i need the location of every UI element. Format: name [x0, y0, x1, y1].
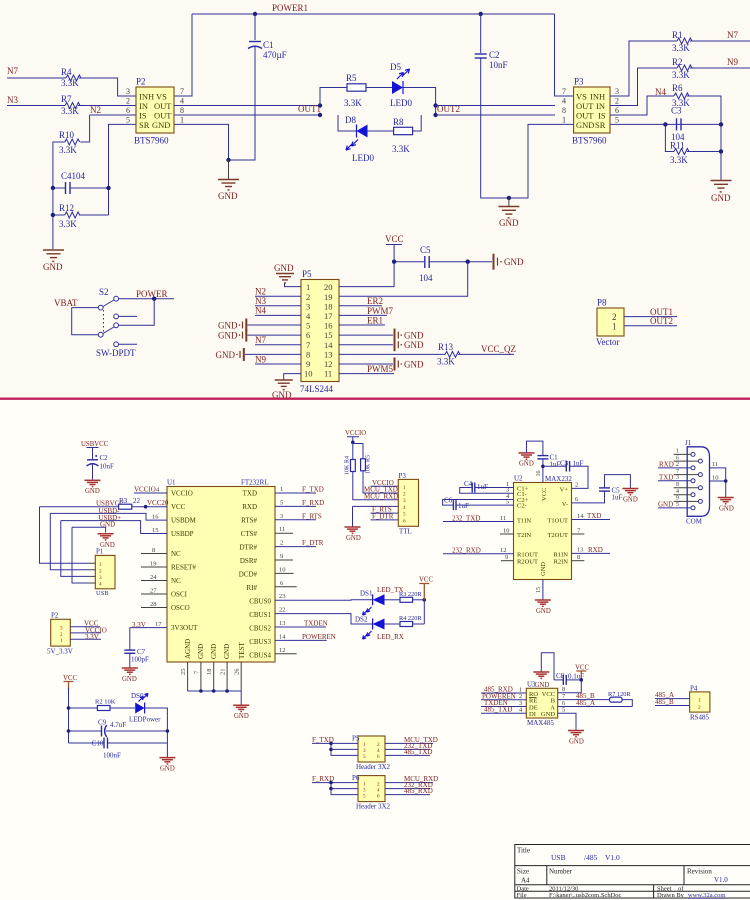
wire P3 pin6 to N4: [610, 96, 674, 115]
wire POWER1 horizontal: [192, 13, 555, 15]
svg-text:PWM5: PWM5: [367, 364, 394, 374]
svg-text:GND: GND: [272, 390, 292, 400]
wire 485_B row: [558, 699, 610, 701]
svg-text:1uF: 1uF: [612, 494, 623, 502]
svg-text:24: 24: [150, 574, 157, 581]
wire VCCIO to TTL pin1: [371, 485, 399, 487]
svg-text:13: 13: [577, 547, 584, 554]
svg-text:5: 5: [306, 321, 310, 331]
svg-text:10nF: 10nF: [100, 463, 115, 471]
wire N2 pin6: [90, 114, 136, 116]
svg-text:D8: D8: [345, 115, 356, 125]
stub CTS pin11: [275, 532, 293, 534]
wire P3 pin2 riser to R2: [610, 68, 677, 106]
resistor R8: [394, 127, 413, 134]
svg-text:R3: R3: [119, 497, 128, 505]
svg-text:12: 12: [324, 359, 333, 369]
svg-text:2: 2: [676, 462, 679, 468]
svg-text:18: 18: [206, 669, 213, 676]
svg-text:RI#: RI#: [247, 584, 258, 592]
wire 232_RXD to R1OUT: [443, 553, 514, 555]
ground GND usb: [85, 480, 101, 486]
wire P2 pin5 drop: [109, 124, 137, 215]
wire gnd jog: [72, 527, 106, 532]
wire 485_TXD out: [385, 754, 430, 756]
svg-text:R4: R4: [345, 456, 351, 463]
svg-text:N4: N4: [255, 306, 266, 316]
svg-text:VS: VS: [576, 92, 587, 102]
svg-text:485_TXD: 485_TXD: [484, 706, 512, 714]
svg-text:5V_3.3V: 5V_3.3V: [47, 648, 73, 656]
svg-text:2: 2: [575, 482, 578, 489]
svg-text:T2OUT: T2OUT: [547, 532, 568, 539]
wire C5 right: [429, 261, 492, 263]
wire P8 OUT1: [624, 316, 677, 318]
wire pin19 riser: [339, 262, 468, 297]
wire P2h pin3 VCC: [70, 626, 100, 628]
wire R2 to N9: [690, 67, 750, 69]
resistor R4 10K vertical: [351, 460, 356, 472]
wire gnd drop2: [508, 198, 510, 206]
svg-text:R11: R11: [670, 141, 685, 151]
capacitor C1: [249, 41, 261, 43]
svg-text:5: 5: [280, 499, 283, 506]
connector P1 USB body: [95, 555, 115, 588]
svg-text:3.3K: 3.3K: [672, 70, 690, 80]
svg-text:MAX232: MAX232: [545, 475, 572, 483]
node junction c9 right: [166, 729, 170, 733]
svg-text:R10: R10: [59, 130, 75, 140]
svg-text:485_A: 485_A: [576, 699, 595, 707]
svg-text:1: 1: [306, 282, 310, 292]
resistor R4: [66, 75, 81, 81]
wire MCU_TXD out: [385, 742, 433, 744]
svg-text:6: 6: [126, 106, 130, 115]
svg-text:P3: P3: [399, 472, 407, 480]
wire pin20 riser: [339, 262, 394, 287]
wire F_RTS pin3: [275, 519, 316, 521]
svg-text:9: 9: [306, 359, 310, 369]
svg-text:TTL: TTL: [399, 528, 412, 536]
wire VCCIO pin4: [134, 492, 167, 494]
wire vcc down to R4led row: [423, 600, 425, 624]
node junction vcc led tx: [423, 598, 427, 602]
wire F_RTS ttl: [371, 512, 399, 514]
svg-text:3.3K: 3.3K: [670, 155, 688, 165]
svg-text:VBAT: VBAT: [54, 298, 78, 308]
svg-text:F_RXD: F_RXD: [302, 499, 324, 507]
svg-text:GND: GND: [223, 644, 231, 659]
svg-text:V1.0: V1.0: [714, 876, 728, 884]
wire GND db9: [658, 507, 691, 509]
svg-text:12: 12: [279, 647, 286, 654]
svg-text:RS485: RS485: [690, 714, 710, 722]
buffer P5 74LS244 body: [301, 280, 339, 382]
wire to R4v: [352, 442, 354, 459]
wire N3: [7, 105, 65, 107]
svg-text:10: 10: [503, 527, 510, 534]
LED D5: [392, 81, 403, 94]
node junction frxd2: [329, 787, 333, 791]
wire R1IN RXD: [572, 552, 611, 554]
svg-text:1: 1: [612, 322, 617, 332]
svg-text:C9: C9: [98, 719, 107, 727]
svg-text:VCCIO: VCCIO: [171, 490, 193, 498]
wire 485_B p4: [655, 705, 690, 707]
svg-text:4: 4: [676, 489, 679, 495]
svg-text:15: 15: [324, 330, 333, 340]
svg-text:OUT: OUT: [154, 101, 172, 111]
wire vcc to P1 pin1: [40, 507, 88, 564]
svg-text:GND: GND: [569, 739, 584, 746]
switch S2 throw2a circle: [114, 323, 119, 328]
wire TXD db9: [658, 480, 691, 482]
wire R11 left: [665, 124, 674, 151]
LED DS0: [135, 703, 144, 714]
node junction vcc20: [144, 505, 148, 509]
wire pin15 gnd: [339, 334, 393, 336]
switch S2 pole1 circle: [98, 305, 103, 310]
svg-text:R2IN: R2IN: [554, 559, 569, 566]
DB9 pin circles right: [698, 459, 702, 463]
svg-text:GND: GND: [623, 497, 638, 504]
svg-text:GND: GND: [218, 191, 238, 201]
svg-text:3: 3: [280, 513, 283, 520]
svg-text:16: 16: [152, 514, 159, 521]
svg-text:3.3K: 3.3K: [61, 106, 79, 116]
svg-text:5: 5: [506, 498, 509, 505]
wire R6 right: [687, 96, 721, 180]
svg-text:P2: P2: [136, 77, 146, 87]
svg-text:Title: Title: [517, 847, 530, 855]
svg-text:C4: C4: [464, 480, 473, 488]
wire VBAT down: [72, 308, 99, 335]
svg-text:GND: GND: [152, 120, 170, 130]
wire F_RXD pin5: [275, 505, 316, 507]
svg-text:74LS244: 74LS244: [300, 384, 334, 394]
node junction ftxd: [329, 742, 333, 746]
svg-text:1uF: 1uF: [550, 461, 561, 469]
svg-text:GND: GND: [43, 262, 63, 272]
svg-text:R4: R4: [61, 67, 72, 77]
wire P2h pin1 3.3V: [70, 638, 101, 640]
node junction vcc u3: [580, 678, 584, 682]
svg-text:DI: DI: [529, 711, 536, 718]
wire VBAT to pole1: [72, 307, 99, 309]
wire pin3 row p5h: [331, 748, 358, 750]
wire TXDEN pin13: [275, 626, 326, 628]
wire R8 right: [413, 115, 422, 131]
svg-text:485_RXD: 485_RXD: [404, 787, 433, 795]
svg-text:2: 2: [403, 492, 406, 498]
ground GND above U3: [533, 672, 549, 678]
wire gnd pin6: [247, 334, 301, 336]
svg-text:CBUS2: CBUS2: [249, 625, 271, 633]
svg-text:R12: R12: [59, 203, 74, 213]
svg-text:3.3K: 3.3K: [344, 98, 362, 108]
wire PWM7: [339, 314, 387, 316]
svg-text:4: 4: [562, 97, 566, 106]
svg-text:3.3K: 3.3K: [59, 219, 77, 229]
svg-text:3.3K: 3.3K: [392, 144, 410, 154]
svg-text:GND: GND: [85, 488, 100, 495]
wire C7 drop: [129, 628, 131, 650]
ground GND left chain: [43, 250, 64, 261]
wire gnd bus: [188, 690, 242, 692]
resistor R3: [119, 504, 132, 509]
svg-text:19: 19: [324, 292, 333, 302]
svg-text:100pF: 100pF: [131, 656, 149, 664]
svg-text:INH: INH: [139, 92, 154, 102]
svg-text:10K: 10K: [345, 464, 351, 475]
svg-text:4: 4: [403, 505, 406, 511]
svg-text:2: 2: [280, 540, 283, 547]
svg-text:CBUS3: CBUS3: [249, 638, 271, 646]
svg-text:TXD: TXD: [659, 473, 673, 481]
svg-text:27: 27: [150, 587, 157, 594]
svg-text:485_TXD: 485_TXD: [404, 748, 432, 756]
node junction POWER: [152, 297, 156, 301]
wire gnd pin8: [245, 353, 301, 355]
svg-text:GND: GND: [404, 340, 424, 350]
svg-text:7: 7: [676, 469, 679, 475]
connector P3 TTL body: [398, 479, 418, 526]
svg-text:P6: P6: [352, 774, 360, 782]
node junction cap right: [106, 186, 110, 190]
svg-text:VCC: VCC: [385, 234, 404, 244]
node junction gnd P3: [507, 196, 511, 200]
stub NC pin24: [141, 580, 167, 582]
svg-text:F:\kaner\..usb2com.SchDoc: F:\kaner\..usb2com.SchDoc: [549, 892, 622, 899]
svg-text:GND: GND: [234, 713, 249, 720]
wire db9 pin11: [710, 468, 726, 497]
svg-text:N4: N4: [655, 87, 666, 97]
wire RXD db9: [658, 467, 691, 469]
svg-text:GND: GND: [160, 766, 175, 773]
svg-text:COM: COM: [686, 518, 703, 526]
wire V- to C5: [572, 491, 605, 503]
wire C1 upper: [254, 14, 256, 40]
svg-text:VCC: VCC: [541, 488, 548, 501]
node junction R12 left: [51, 213, 55, 217]
title block frame: [515, 845, 750, 899]
svg-text:POWER1: POWER1: [272, 3, 308, 13]
svg-text:R1IN: R1IN: [554, 551, 569, 558]
svg-text:File: File: [517, 892, 527, 899]
wire R4v down to MCU_RXD: [353, 472, 399, 500]
svg-text:3: 3: [403, 498, 406, 504]
wire 232_RXD out: [385, 788, 430, 790]
svg-text:2: 2: [612, 312, 617, 322]
wire gnd loop to C8: [541, 653, 554, 680]
svg-text:16: 16: [324, 321, 333, 331]
svg-text:GND: GND: [519, 461, 534, 468]
svg-text:C6: C6: [444, 497, 453, 505]
node junction C1 top: [253, 12, 257, 16]
node junction vccio: [351, 441, 355, 445]
wire P8 OUT2: [624, 325, 677, 327]
svg-text:R4 220R: R4 220R: [399, 615, 422, 622]
ground GND ttl: [345, 527, 361, 533]
node junction db9 gnd: [724, 479, 728, 483]
svg-text:1: 1: [562, 116, 566, 125]
node junction R11 right: [719, 149, 723, 153]
LED D8: [357, 125, 368, 138]
wire throw2a to POWER: [119, 299, 155, 326]
wire R13 row: [339, 353, 445, 355]
svg-text:DS1: DS1: [360, 590, 373, 598]
ground GND below C1: [218, 180, 239, 191]
wire usbd- to P1 pin2: [50, 513, 87, 569]
svg-text:USBDM: USBDM: [171, 517, 197, 525]
wire throw2b stub: [119, 343, 138, 345]
stub T2OUT pin7: [572, 533, 585, 535]
svg-text:25: 25: [180, 669, 187, 676]
svg-text:5: 5: [363, 794, 366, 800]
svg-text:14: 14: [577, 513, 584, 520]
power port GND pin8: [236, 348, 244, 361]
wire N4 to pin4: [255, 314, 301, 316]
wire vcc to pin8: [558, 680, 582, 693]
wire F_DTR pin2: [275, 546, 316, 548]
stub CBUS4 pin12: [275, 653, 297, 655]
wire R3 to VCC pin20: [132, 506, 167, 508]
wire pin14 gnd: [339, 344, 393, 346]
svg-text:SW-DPDT: SW-DPDT: [96, 348, 136, 358]
svg-text:5: 5: [363, 754, 366, 760]
svg-text:2: 2: [615, 97, 619, 106]
svg-text:GND: GND: [576, 120, 594, 130]
node junction c9 row: [67, 729, 71, 733]
svg-text:R2 10K: R2 10K: [95, 699, 116, 706]
wire pin3 row p6h: [331, 788, 358, 790]
wire frxd jumper: [331, 783, 358, 795]
wire C2 usb lower: [92, 465, 94, 480]
svg-text:R7: R7: [61, 94, 72, 104]
svg-text:MCU_RXD: MCU_RXD: [364, 492, 398, 500]
ground GND below U2: [535, 600, 551, 606]
svg-text:232_TXD: 232_TXD: [452, 515, 480, 523]
switch S2 throw1a circle: [114, 296, 119, 301]
wire GND pin15 drop: [542, 580, 544, 600]
svg-text:www.32a.com: www.32a.com: [688, 892, 726, 899]
svg-text:U2: U2: [514, 475, 523, 483]
background top: [0, 0, 750, 398]
svg-text:R5: R5: [346, 73, 357, 83]
stub DCD pin10: [275, 572, 294, 574]
svg-text:15: 15: [152, 527, 159, 534]
wire 485_A row: [558, 706, 633, 708]
svg-text:1: 1: [99, 562, 102, 568]
svg-text:6: 6: [377, 794, 380, 800]
wire DS1 to R3led: [385, 599, 401, 601]
wire P3 pin5 row: [610, 123, 721, 125]
wire upper branch: [320, 88, 347, 106]
svg-text:6: 6: [615, 106, 619, 115]
svg-text:FT232RL: FT232RL: [241, 479, 269, 487]
resistor R6: [674, 93, 689, 99]
node junction frxd: [329, 781, 333, 785]
stub OSCO pin28: [141, 607, 167, 609]
wire PWM5: [339, 373, 394, 375]
node junction gnd: [226, 158, 230, 162]
svg-text:19: 19: [150, 560, 157, 567]
svg-text:USBDP: USBDP: [171, 530, 194, 538]
svg-text:8: 8: [306, 349, 310, 359]
svg-text:R3 220R: R3 220R: [399, 591, 422, 598]
pin stubs P1: [87, 563, 95, 583]
svg-text:17: 17: [155, 621, 162, 628]
svg-text:6: 6: [377, 754, 380, 760]
wire lower branch left: [338, 115, 357, 131]
capacitor C7: [124, 649, 135, 651]
svg-text:10: 10: [712, 474, 719, 481]
svg-text:J1: J1: [685, 439, 692, 447]
resistor R3 220R: [400, 597, 413, 602]
svg-text:2: 2: [306, 292, 310, 302]
svg-text:P1: P1: [96, 548, 104, 556]
svg-text:DSR#: DSR#: [240, 557, 258, 565]
wire N9 to pin9: [255, 363, 301, 365]
wire N3 to pin3: [255, 305, 301, 307]
switch S2 pole1 lever: [103, 300, 114, 307]
resistor R11: [674, 149, 689, 155]
stub RESET pin19: [141, 566, 167, 568]
ground GND below U1: [233, 705, 249, 711]
svg-text:OUT1: OUT1: [298, 104, 321, 114]
svg-text:R2: R2: [672, 57, 683, 67]
wire USBD-: [50, 513, 167, 520]
svg-text:6: 6: [403, 518, 406, 524]
wire C3 right to V+: [570, 466, 588, 488]
wire gnd drop ttl: [352, 506, 354, 526]
wire gnd pin5: [247, 324, 301, 326]
svg-text:R5: R5: [366, 455, 372, 462]
svg-text:C5: C5: [420, 245, 431, 255]
stub NC pin8: [141, 553, 167, 555]
wire C9 row right: [106, 730, 167, 732]
wire gnd bus drop: [240, 691, 242, 705]
svg-text:16: 16: [536, 471, 542, 477]
connector P6 header body: [358, 776, 385, 802]
svg-text:4: 4: [180, 97, 184, 106]
svg-text:8: 8: [562, 106, 566, 115]
wire C1 lower to gnd row: [229, 47, 256, 160]
wire CBUS1 pin22 to DS2: [275, 614, 373, 624]
wire P2 pin1 to gnd: [174, 124, 229, 160]
svg-text:IS: IS: [598, 111, 606, 121]
wire C9 row left: [69, 730, 102, 732]
svg-text:1uF: 1uF: [458, 502, 469, 510]
node OUT1 junctions: [318, 103, 322, 107]
svg-text:23: 23: [279, 593, 286, 600]
svg-text:11: 11: [712, 461, 718, 468]
resistor R5 10K vertical: [361, 459, 366, 471]
wire R2 to DS0: [110, 707, 135, 709]
svg-text:GND: GND: [197, 644, 205, 659]
wire usbvcc to R3: [40, 506, 119, 508]
stub DSR pin9: [275, 559, 293, 561]
svg-text:DCD#: DCD#: [239, 571, 258, 579]
wire R4 to pin3: [79, 78, 136, 96]
svg-text:3: 3: [615, 87, 619, 96]
svg-text:7: 7: [562, 87, 566, 96]
wire to R5v: [353, 444, 363, 459]
svg-text:N3: N3: [7, 95, 18, 105]
capacitor C2: [475, 53, 487, 55]
power port GND bar right of C5: [494, 254, 502, 270]
svg-text:R7 120R: R7 120R: [608, 691, 631, 698]
